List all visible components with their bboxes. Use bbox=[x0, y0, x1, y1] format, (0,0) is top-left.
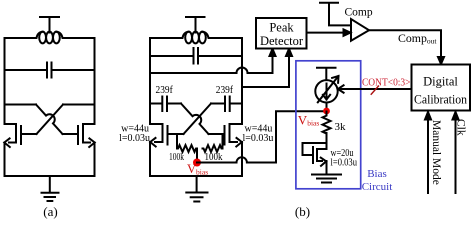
capacitor C (a) bbox=[5, 63, 95, 78]
wire source left (b) bbox=[149, 142, 151, 176]
peak detector box bbox=[256, 18, 307, 49]
node Vbias dot bbox=[193, 159, 201, 167]
svg-text:Manual Mode: Manual Mode bbox=[430, 120, 442, 185]
capacitor C (b) bbox=[150, 48, 242, 64]
wire diagonal right-to-left (a) bbox=[37, 105, 64, 135]
bus slash red bbox=[371, 86, 378, 94]
inductor L (a) bbox=[5, 32, 95, 38]
svg-text:(b): (b) bbox=[295, 204, 310, 219]
svg-text:l=0.03u: l=0.03u bbox=[119, 133, 150, 144]
wire diagonal left cap to right gate with hop (b) bbox=[181, 104, 209, 135]
ground (a) bbox=[42, 176, 59, 201]
wire left rail (b) bbox=[149, 38, 151, 124]
wire source right (a) bbox=[94, 143, 96, 177]
wire bottom rail (b) bbox=[150, 175, 242, 177]
svg-text:Compout: Compout bbox=[398, 31, 437, 46]
capacitor 239f left bbox=[150, 97, 181, 112]
capacitor 239f right bbox=[211, 97, 242, 112]
wire left rail (a) bbox=[4, 38, 6, 124]
transistor M3 (b) bbox=[150, 124, 184, 145]
wire source right (b) bbox=[241, 142, 243, 176]
svg-text:Circuit: Circuit bbox=[362, 181, 393, 193]
transistor M4 (b) bbox=[209, 124, 243, 145]
wire source left (a) bbox=[4, 143, 6, 177]
wire bottom rail (a) bbox=[5, 175, 95, 177]
wire resistor to transistor bbox=[326, 133, 328, 149]
wire current source to Vbias node bbox=[326, 103, 328, 112]
svg-text:CONT<0:3>: CONT<0:3> bbox=[362, 76, 411, 88]
wire right rail (a) bbox=[94, 38, 96, 124]
wire right rail (b) bbox=[241, 38, 243, 124]
VDD supply symbol bias bbox=[317, 68, 336, 81]
op-amp comparator U1 bbox=[351, 19, 369, 41]
svg-text:Comp: Comp bbox=[345, 7, 373, 19]
resistor 100k left bbox=[177, 134, 197, 152]
resistor 3k bbox=[323, 112, 331, 134]
wire peak detector to comparator bbox=[307, 32, 345, 34]
svg-text:3k: 3k bbox=[335, 121, 347, 133]
VDD supply symbol comparator bbox=[320, 3, 351, 26]
svg-text:Peak: Peak bbox=[269, 21, 294, 35]
wire cross upper right (a) bbox=[63, 104, 95, 106]
svg-text:Calibration: Calibration bbox=[414, 93, 468, 107]
bias circuit blue box bbox=[296, 61, 361, 189]
svg-text:(a): (a) bbox=[43, 204, 57, 219]
inductor L (b) bbox=[150, 32, 242, 38]
arrowhead into peak detector 2 bbox=[286, 49, 292, 56]
arrowhead into digital calibration bbox=[438, 57, 444, 64]
transistor M5 diode connected bbox=[303, 143, 327, 163]
svg-text:Clk: Clk bbox=[455, 119, 467, 136]
adjustable arrow on current source bbox=[318, 76, 339, 102]
wire to peak detector input 1 with hop bbox=[150, 55, 273, 73]
svg-text:100k: 100k bbox=[169, 152, 184, 163]
VDD supply symbol (b) bbox=[186, 17, 205, 33]
arrowhead into comparator bbox=[344, 29, 351, 35]
svg-text:l=0.03u: l=0.03u bbox=[243, 133, 274, 144]
svg-text:100k: 100k bbox=[205, 152, 223, 163]
svg-text:Digital: Digital bbox=[423, 75, 458, 89]
transistor M1 (a) bbox=[5, 124, 37, 144]
arrow input Manual Mode bbox=[427, 119, 429, 193]
svg-text:239f: 239f bbox=[216, 85, 234, 96]
svg-text:Detector: Detector bbox=[260, 34, 304, 48]
arrowhead into peak detector 1 bbox=[270, 49, 276, 56]
arrowhead CONT into current source bbox=[338, 85, 344, 92]
ground (b) bbox=[186, 176, 207, 202]
current source I1 bbox=[315, 80, 337, 102]
wire cross upper left (a) bbox=[5, 104, 37, 106]
wire diagonal left-to-right with hop (a) bbox=[36, 105, 63, 135]
arrow input Clk bbox=[455, 119, 457, 193]
node Vbias dot bias circuit bbox=[323, 108, 330, 115]
wire Vbias to bias circuit with hop bbox=[197, 111, 327, 162]
wire Vbias center drop bbox=[196, 149, 198, 162]
wire CONT bus bbox=[338, 88, 411, 90]
transistor M2 (a) bbox=[63, 124, 95, 144]
svg-text:Bias: Bias bbox=[367, 168, 387, 180]
digital calibration box bbox=[412, 65, 471, 111]
ground bias circuit bbox=[312, 175, 341, 183]
wire diagonal right cap to left gate (b) bbox=[184, 104, 212, 135]
resistor 100k right bbox=[203, 134, 223, 152]
wire comparator output to digital calibration bbox=[369, 30, 441, 56]
wire source to ground bias bbox=[326, 161, 328, 174]
svg-text:l=0.03u: l=0.03u bbox=[331, 158, 358, 169]
VDD supply symbol (a) bbox=[40, 17, 59, 33]
svg-text:Vbias: Vbias bbox=[298, 112, 320, 127]
wire to peak detector input 2 bbox=[242, 55, 289, 87]
svg-text:239f: 239f bbox=[156, 85, 174, 96]
